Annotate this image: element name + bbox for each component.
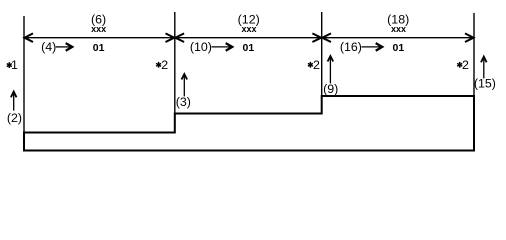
svg-text:01: 01 [243,42,255,54]
svg-text:(9): (9) [323,82,338,96]
arrowhead pointing left at x=175 [175,33,184,42]
svg-text:xxx: xxx [391,24,406,34]
svg-text:2: 2 [313,58,320,72]
label *1 [7,58,18,72]
arrowhead pointing right at x=322 [312,33,321,42]
svg-text:01: 01 [93,42,105,54]
arrow after (4) [56,46,72,48]
svg-text:(4): (4) [41,40,56,54]
svg-text:01: 01 [393,42,405,54]
svg-text:xxx: xxx [241,24,256,34]
svg-text:2: 2 [161,58,168,72]
extension line at x=322 [321,12,323,115]
svg-text:(2): (2) [7,111,22,125]
arrow after (10) [212,46,232,48]
svg-text:(3): (3) [176,95,191,109]
extension line at x=474 [473,13,475,151]
svg-text:(15): (15) [474,76,496,90]
extension line at x=24 [23,16,25,151]
svg-text:1: 1 [11,58,18,72]
arrowhead left end at x=24 [25,33,34,42]
label *2 second [308,58,320,72]
svg-text:(10): (10) [190,40,212,54]
arrowhead pointing right at x=175 [166,33,175,42]
arrowhead pointing left at x=322 [322,33,331,42]
label *2 third [457,58,469,72]
svg-text:2: 2 [462,58,469,72]
arrow after (16) [362,46,382,48]
label *2 first [156,58,168,72]
up arrow (9) [328,56,334,83]
up arrow (15) [481,57,487,79]
svg-text:xxx: xxx [91,24,106,34]
arrowhead right end at x=474 [465,33,474,42]
dimension line [24,37,474,39]
up arrow (3) [182,74,188,96]
svg-text:(16): (16) [340,40,362,54]
staircase outline [24,96,474,151]
extension line at x=175 [174,12,176,133]
up arrow (2) [11,92,17,111]
